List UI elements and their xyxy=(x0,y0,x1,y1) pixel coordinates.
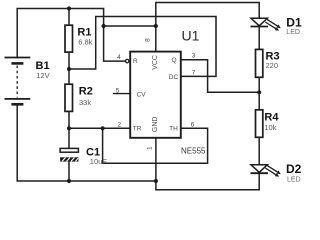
wire right rail segments xyxy=(258,27,260,165)
svg-text:D1: D1 xyxy=(286,16,302,30)
resistor R4 xyxy=(256,110,280,138)
resistor R2 xyxy=(65,84,93,111)
wire bottom rail left xyxy=(17,104,156,181)
wire pin 7 route xyxy=(69,17,216,77)
svg-text:1: 1 xyxy=(147,146,154,150)
LED D1 xyxy=(251,16,302,37)
svg-text:NE555: NE555 xyxy=(181,147,206,156)
capacitor C1 xyxy=(60,147,107,166)
svg-text:7: 7 xyxy=(192,70,196,77)
svg-text:D2: D2 xyxy=(286,162,302,176)
svg-text:Q: Q xyxy=(171,57,176,64)
svg-text:DC: DC xyxy=(169,74,179,81)
wire R2 leads xyxy=(68,69,70,128)
wire top rail from battery xyxy=(17,9,103,58)
LED D2 xyxy=(251,162,302,183)
wire C1 leads xyxy=(68,128,70,181)
svg-text:GND: GND xyxy=(152,117,159,133)
svg-text:TR: TR xyxy=(133,126,142,133)
svg-text:5: 5 xyxy=(116,88,120,95)
pin 5 stub xyxy=(113,93,130,95)
wire R1 leads xyxy=(68,9,70,70)
pin 4 bubble xyxy=(126,59,129,62)
svg-text:10k: 10k xyxy=(264,123,276,132)
svg-text:10uF: 10uF xyxy=(90,157,108,166)
svg-text:33k: 33k xyxy=(79,98,91,107)
svg-text:6: 6 xyxy=(191,122,195,129)
wire Q pin 3 route xyxy=(181,60,259,93)
svg-text:LED: LED xyxy=(286,29,300,36)
svg-text:8: 8 xyxy=(144,38,151,42)
wire bottom rail right xyxy=(156,173,259,190)
svg-text:220: 220 xyxy=(266,61,279,70)
wire pin 8 xyxy=(155,26,157,52)
svg-text:U1: U1 xyxy=(182,27,200,43)
svg-text:6.8k: 6.8k xyxy=(78,37,92,46)
svg-text:2: 2 xyxy=(117,122,121,129)
wire GND pin 1 xyxy=(155,138,157,181)
wire TH pin 6 route xyxy=(103,128,208,163)
node dots xyxy=(67,6,261,183)
op-amp U1 (NE555 IC body) xyxy=(113,27,206,155)
resistor R3 xyxy=(256,49,280,77)
resistor R1 xyxy=(65,25,93,52)
wire TR pin 2 xyxy=(69,127,130,129)
svg-text:12V: 12V xyxy=(36,71,49,80)
svg-text:R: R xyxy=(133,58,138,65)
wire pin 4 route xyxy=(104,26,126,61)
svg-text:R2: R2 xyxy=(79,86,93,98)
svg-text:R4: R4 xyxy=(264,112,279,124)
svg-text:4: 4 xyxy=(117,54,121,61)
svg-text:TH: TH xyxy=(169,126,178,133)
battery B1 xyxy=(5,58,50,105)
wire top-right rail to D1 xyxy=(156,3,259,27)
svg-text:LED: LED xyxy=(287,176,301,183)
svg-text:VCC: VCC xyxy=(152,55,159,70)
svg-text:CV: CV xyxy=(137,92,147,99)
svg-text:3: 3 xyxy=(192,53,196,60)
wire VCC link xyxy=(104,25,156,27)
